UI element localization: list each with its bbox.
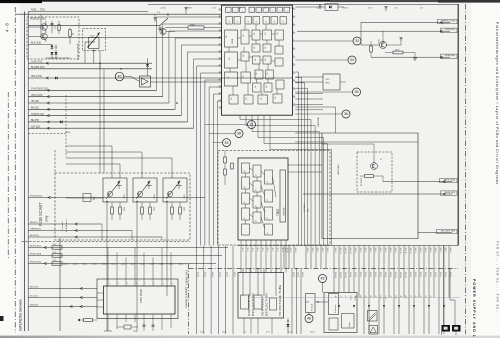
svg-text:888: 888 [256,72,258,75]
wire vertical x60 lower [59,238,61,331]
svg-text:1141-11: 1141-11 [339,272,341,278]
wire TXT top drops [107,248,109,280]
svg-text:BLUE(X): BLUE(X) [30,235,39,237]
IC 7230 second row blocks [226,17,233,25]
svg-text:1140-9: 1140-9 [334,248,336,253]
power arrow 7495 [399,37,402,42]
svg-text:WDSO [31]: WDSO [31] [30,262,41,264]
scan edge top bar [0,0,500,2]
diode on BE line [60,120,63,123]
svg-text:1141-12: 1141-12 [404,272,406,278]
svg-text:TPU 2740: TPU 2740 [139,289,143,303]
svg-text:26: 26 [219,106,221,108]
svg-text:888: 888 [265,32,267,35]
TXT crystal 1250 [124,325,131,329]
svg-text:8: 8 [273,11,275,12]
reference circle 17 [248,121,256,129]
IC 7230 osc blocks [253,83,262,92]
resistor pair below 7585 [111,207,114,214]
audio protection box [329,294,339,315]
svg-text:8: 8 [293,63,294,65]
wire horizontals into signal box [295,132,322,134]
svg-text:1140-2: 1140-2 [419,248,421,253]
svg-text:1141-7: 1141-7 [379,272,381,277]
svg-text:1140-7: 1140-7 [384,248,386,253]
decoder internal blocks column3 [265,170,273,184]
svg-text:11: 11 [293,87,295,89]
svg-text:BM [21]: BM [21] [31,108,39,110]
reference circle 40 [115,72,124,81]
svg-text:888: 888 [255,85,257,88]
wire UDM to edge [371,56,450,58]
wire top feed y25 [28,24,160,26]
arrowheads on power drops [338,305,340,308]
deflection interface box [238,273,284,319]
svg-text:HUE [G5]: HUE [G5] [446,192,456,194]
svg-text:888: 888 [243,75,245,78]
power arrow top right [318,4,321,9]
svg-text:17: 17 [250,123,254,127]
svg-text:8: 8 [287,11,289,12]
svg-text:SYN/T2/NO [26]: SYN/T2/NO [26] [31,89,48,91]
svg-text:1141-11: 1141-11 [399,272,401,278]
svg-text:1140-8: 1140-8 [449,248,451,253]
svg-text:RED(X): RED(X) [30,222,38,224]
svg-text:5156: 5156 [53,252,57,254]
svg-text:888: 888 [255,58,257,61]
audio module frame 7510 [324,293,357,333]
page edge black marker left [0,316,4,321]
svg-text:1141-2: 1141-2 [414,272,416,277]
dashed box degauss switch [83,29,106,51]
svg-text:12: 12 [293,95,295,97]
svg-text:88: 88 [267,232,269,234]
svg-text:115-8: 115-8 [276,248,278,252]
svg-text:RGB ↔ [7/5]: RGB ↔ [7/5] [31,9,45,12]
svg-text:SCL [X]: SCL [X] [30,296,38,298]
wire bundle box verticals [335,107,337,133]
svg-text:88: 88 [266,21,268,23]
wire bundle IC pins to left bus doglegs [157,17,222,90]
svg-text:88: 88 [256,174,258,176]
svg-text:BLK [1/5]: BLK [1/5] [31,42,41,45]
wire HUE to edge [303,193,452,195]
svg-text:8: 8 [266,11,268,12]
svg-text:888: 888 [254,32,256,35]
junction dot bus [176,102,178,104]
IC 7230 matrix blocks mid [252,30,260,40]
svg-text:888: 888 [275,96,277,99]
svg-text:888: 888 [226,35,228,38]
svg-text:BL(OBI) [5/2]: BL(OBI) [5/2] [31,67,45,69]
diode D2571 [51,44,53,50]
svg-text:888: 888 [243,34,245,37]
svg-text:888: 888 [265,58,267,61]
wire BL OBI 5/2 [28,68,152,70]
svg-text:1n: 1n [244,332,246,334]
wire transistor base feed [361,22,380,45]
decoder internal blocks column2 [253,165,261,177]
svg-text:1140-3: 1140-3 [364,248,366,253]
svg-text:ROHR +A KONTR.: ROHR +A KONTR. [77,43,80,60]
diode D2572 [51,52,54,55]
svg-text:4: 4 [293,31,294,33]
svg-text:1141-5: 1141-5 [369,272,371,277]
IC 7230 video processor outline [222,5,293,115]
svg-text:88: 88 [244,217,246,219]
svg-text:RV MUTE: RV MUTE [361,177,363,186]
wire top feed y37 [41,37,222,39]
wire HFB/SC to edge [361,21,450,23]
wire BLKTX [28,288,97,290]
svg-text:1141-12: 1141-12 [344,272,346,278]
wire bottom edge stubs [441,332,443,336]
svg-text:1141-2: 1141-2 [204,272,206,277]
wire bundle TXT verticals lower [196,246,198,335]
transistor 7508 on RGBON [83,194,91,202]
svg-text:7: 7 [293,55,294,57]
svg-text:888: 888 [228,76,230,79]
resistor R3571 vertical [58,25,60,31]
IC 7230 sync proc block [225,52,238,68]
svg-text:1140-4: 1140-4 [369,248,371,253]
wire stubs circles right [295,40,353,42]
audio inner boxes [342,314,355,329]
wire trunk vertical B [27,12,29,332]
relay box 7575 [89,38,100,49]
decoder internal blocks column1 [242,163,250,173]
svg-text:888: 888 [266,85,268,88]
svg-text:TXT-PART, Spatz-Chassis: TXT-PART, Spatz-Chassis [185,270,189,309]
svg-text:1141-7: 1141-7 [292,272,294,277]
svg-text:BLK(TX): BLK(TX) [30,287,39,289]
transistor 7585 switch cell [103,178,127,202]
wire RGBON [28,197,205,199]
svg-text:888: 888 [261,97,263,100]
wire bundle IC right drop [295,72,298,246]
svg-text:+L: +L [419,295,421,297]
power arrow top mid [184,7,187,12]
svg-text:GRUNDIG Service: GRUNDIG Service [19,299,23,331]
deflection small boxes [241,295,249,309]
reference circle 45 [319,275,327,283]
svg-text:CHROMA: CHROMA [282,207,285,216]
resistor network left of TXT [84,319,93,322]
svg-text:1140-11: 1140-11 [344,248,346,254]
svg-text:1140-8: 1140-8 [326,248,328,253]
wire bottom joins RGB [101,224,103,240]
svg-text:3: 3 [127,283,128,285]
wire verticals left to SCART area [99,63,101,173]
IC TXT outer frame [97,279,178,319]
right schematic border line [457,4,459,246]
svg-text:88: 88 [256,21,258,23]
wire ROSD with resistor 5157 [28,247,228,249]
connector row top rail [237,245,458,247]
svg-text:HFA1 [5/2]: HFA1 [5/2] [31,75,42,78]
svg-text:888: 888 [267,72,269,75]
dashed box RGB output stage [55,173,190,240]
hatch box symbol [368,311,378,322]
junction dots top-left [99,62,101,64]
resistor stack in decoder box left [224,157,227,163]
svg-text:2: 2 [293,15,294,17]
right border dash-dot line [465,4,467,334]
TXT IC top pins [107,279,109,286]
svg-text:1140-1: 1140-1 [354,248,356,253]
decoder delay line block [280,170,286,222]
svg-text:22k: 22k [394,8,397,10]
svg-text:1141-1: 1141-1 [409,272,411,277]
svg-text:3,3n: 3,3n [368,8,372,10]
svg-text:HDF [PG]: HDF [PG] [446,29,456,31]
diode D2573 [55,52,58,55]
svg-text:3585: 3585 [123,207,125,211]
wire RED X [28,223,102,225]
svg-text:8: 8 [242,11,244,12]
svg-text:MTSC [G6]: MTSC [G6] [444,180,455,182]
reference circle 36 [342,110,350,118]
svg-text:1140-3: 1140-3 [424,248,426,253]
svg-text:88: 88 [274,21,276,23]
svg-text:5: 5 [145,283,146,285]
svg-text:1141-3: 1141-3 [211,272,213,277]
wire degauss vertical drops [93,51,95,64]
TXT cap pair bottom [143,322,145,331]
transistor 7583 switch cell [163,178,187,202]
switch S7560 top [160,18,168,25]
top schematic border line [148,3,458,5]
svg-text:1141-6: 1141-6 [434,272,436,277]
svg-text:C2342: C2342 [316,8,323,10]
svg-text:115-9: 115-9 [281,248,283,252]
svg-text:888: 888 [229,57,231,60]
svg-text:RGB/DEC [2/5]: RGB/DEC [2/5] [30,19,46,21]
svg-text:88: 88 [283,21,285,23]
svg-text:1140-1: 1140-1 [414,248,416,253]
svg-text:3: 3 [293,23,294,25]
IC 7230 internal wiring [229,25,279,96]
svg-text:88: 88 [229,21,231,23]
resistor pair below 7584 [141,207,144,214]
svg-text:115-3: 115-3 [251,248,253,252]
IC 7250 TPU text processor [104,286,176,314]
reference circle 38 [235,130,243,138]
svg-text:1140-5: 1140-5 [434,248,436,253]
transistor T7560 [160,28,166,34]
svg-text:1141-3: 1141-3 [359,272,361,277]
resistor 3495 [393,51,403,54]
svg-text:RGBON [11]: RGBON [11] [30,196,43,198]
IC 7302 decoder outline [238,158,288,240]
wire drop from 7583 [166,202,168,240]
component box 3575 [69,30,72,37]
wire +A Y 7/2 [28,62,152,64]
svg-text:for RGB Scart: for RGB Scart [65,219,68,232]
faint fold line bottom right [250,297,460,299]
svg-text:88: 88 [256,205,258,207]
triangle warning box [369,326,378,335]
connector pin row upper [283,246,285,269]
wire BLUE X [28,236,162,238]
wire bundle power drops [242,268,244,296]
dashed corner RGBON entry [28,95,66,157]
svg-text:HFB/SC [GG]: HFB/SC [GG] [442,20,456,22]
svg-text:1141-1: 1141-1 [196,272,198,277]
svg-text:R3363: R3363 [342,8,349,10]
svg-text:10: 10 [293,79,295,81]
svg-text:35: 35 [355,90,359,94]
wire loop to fuses [444,246,456,327]
TXT IC left pins [97,292,104,294]
svg-text:888: 888 [246,97,248,100]
svg-text:SDA [X]: SDA [X] [30,304,38,307]
svg-text:88: 88 [248,21,250,23]
svg-text:6: 6 [154,283,155,285]
svg-text:DEFLECTION: DEFLECTION [264,293,268,316]
svg-text:1: 1 [109,283,110,285]
svg-text:Platinenabbildungen und Schalt: Platinenabbildungen und Schaltpläne / La… [495,22,499,185]
svg-text:88: 88 [267,181,269,183]
svg-text:1141-1: 1141-1 [349,272,351,277]
svg-text:115-4: 115-4 [256,248,258,252]
reference circle 34 [348,56,356,64]
svg-text:35: 35 [71,33,73,35]
svg-text:13: 13 [293,103,295,105]
reference circle 35 [353,88,361,96]
svg-text:40: 40 [219,8,221,10]
svg-text:1140-2: 1140-2 [289,248,291,253]
svg-text:C2300: C2300 [160,8,167,10]
svg-text:8: 8 [235,11,237,12]
svg-text:1140-8: 1140-8 [389,248,391,253]
dash-dot power chassis divider [189,267,459,269]
resistor 3301 [365,175,374,178]
svg-text:1141-7: 1141-7 [439,272,441,277]
IC 7230 luma block [225,30,238,47]
svg-text:115-6: 115-6 [266,248,268,252]
svg-text:1141-10: 1141-10 [394,272,396,278]
svg-text:CONTR [22]: CONTR [22] [31,114,44,116]
svg-text:8: 8 [252,11,254,12]
TXT IC bottom pins [107,314,109,322]
svg-text:1140-10: 1140-10 [339,248,341,254]
svg-text:1140-4: 1140-4 [429,248,431,253]
IC 7230 mid small blocks [252,44,260,52]
svg-text:Regler: Regler [349,321,351,327]
svg-text:888: 888 [231,97,233,100]
svg-text:5: 5 [293,39,294,41]
svg-text:4 - 8: 4 - 8 [5,23,10,32]
svg-text:88: 88 [244,186,246,188]
svg-text:+A(Y) [7/2]: +A(Y) [7/2] [31,60,42,63]
fuse 1132 black body A [442,325,451,332]
svg-text:1141-9: 1141-9 [301,272,303,277]
svg-text:1141-6: 1141-6 [233,272,235,277]
svg-text:88: 88 [256,220,258,222]
page fold dash-dot line left outer [7,92,9,258]
svg-text:888: 888 [265,46,267,49]
svg-text:VID(Y) [25]: VID(Y) [25] [31,95,43,97]
svg-text:888: 888 [277,32,279,35]
IC 7230 top pin boxes row [226,7,232,12]
svg-text:1141-5: 1141-5 [226,272,228,277]
transistor 7301 mute [371,163,378,170]
wire drop from 7585 [106,202,108,240]
TXT extra bottom drops [107,322,109,331]
dashed box RV mute module [357,152,392,192]
crystal 1400 4.43MHz box [323,74,340,90]
junction stubs to reference circles [205,124,248,126]
svg-text:1141-6: 1141-6 [374,272,376,277]
IC 7230 deflection blocks [225,72,238,86]
switch S7575 arrow [85,41,95,43]
wire WSSO with resistor 5156 [28,255,222,257]
svg-text:1140-6: 1140-6 [316,248,318,253]
svg-text:14,5V: 14,5V [349,295,351,300]
svg-text:1140-4: 1140-4 [306,248,308,253]
svg-text:3584: 3584 [153,207,155,211]
svg-text:45: 45 [321,277,325,281]
IC 7230 blocks row4 [241,52,249,61]
svg-text:1140-10: 1140-10 [399,248,401,254]
svg-text:1140-12: 1140-12 [349,248,351,254]
fuse 1132 black body B [452,325,461,332]
wire HDF to edge [297,30,450,32]
svg-text:6: 6 [293,47,294,49]
svg-text:115-7: 115-7 [271,248,273,252]
svg-text:1: 1 [293,7,294,9]
svg-text:1141-8: 1141-8 [444,272,446,277]
svg-text:UMSCHALT: UMSCHALT [337,163,340,175]
ground cap 2495 [414,53,416,59]
svg-text:1250: 1250 [133,331,137,333]
svg-text:1x61: 1x61 [379,295,381,299]
svg-text:34: 34 [350,58,354,62]
svg-text:1140-3: 1140-3 [294,248,296,253]
wire GREEN X [28,230,132,232]
svg-text:1140-9: 1140-9 [394,248,396,253]
capacitor C top middle [159,25,161,31]
svg-text:GREEN(X): GREEN(X) [30,229,41,231]
wire bundle IC lower pins to TXT verticals [197,66,222,246]
diode D2576 on HFA [55,77,58,80]
svg-text:1141-5: 1141-5 [429,272,431,277]
svg-text:88: 88 [237,21,239,23]
dash-dot TXT part boundary [63,264,189,334]
wire RGB to 7/5 [28,11,148,13]
svg-text:7: 7 [163,283,164,285]
dashed box decoder module [218,151,330,246]
svg-text:5157: 5157 [53,244,57,246]
svg-text:1140-6: 1140-6 [379,248,381,253]
svg-text:1140-12: 1140-12 [409,248,411,254]
deflection box bottom wires [243,318,245,334]
diode box top right of IC [325,4,338,11]
svg-text:LUMA: LUMA [231,38,234,44]
svg-text:8: 8 [228,11,230,12]
decoder internal wires [246,168,277,228]
svg-text:88: 88 [267,199,269,201]
wire bus left labels group [28,89,156,91]
svg-text:MHz: MHz [326,83,330,85]
wire WDSO with resistor 5155 [28,263,216,265]
transistor T7571 [41,24,48,31]
black diode near triangle [146,64,149,67]
svg-text:T1: T1 [380,159,382,161]
svg-text:7302: 7302 [276,209,280,216]
wire top feed y14 [15,13,221,15]
